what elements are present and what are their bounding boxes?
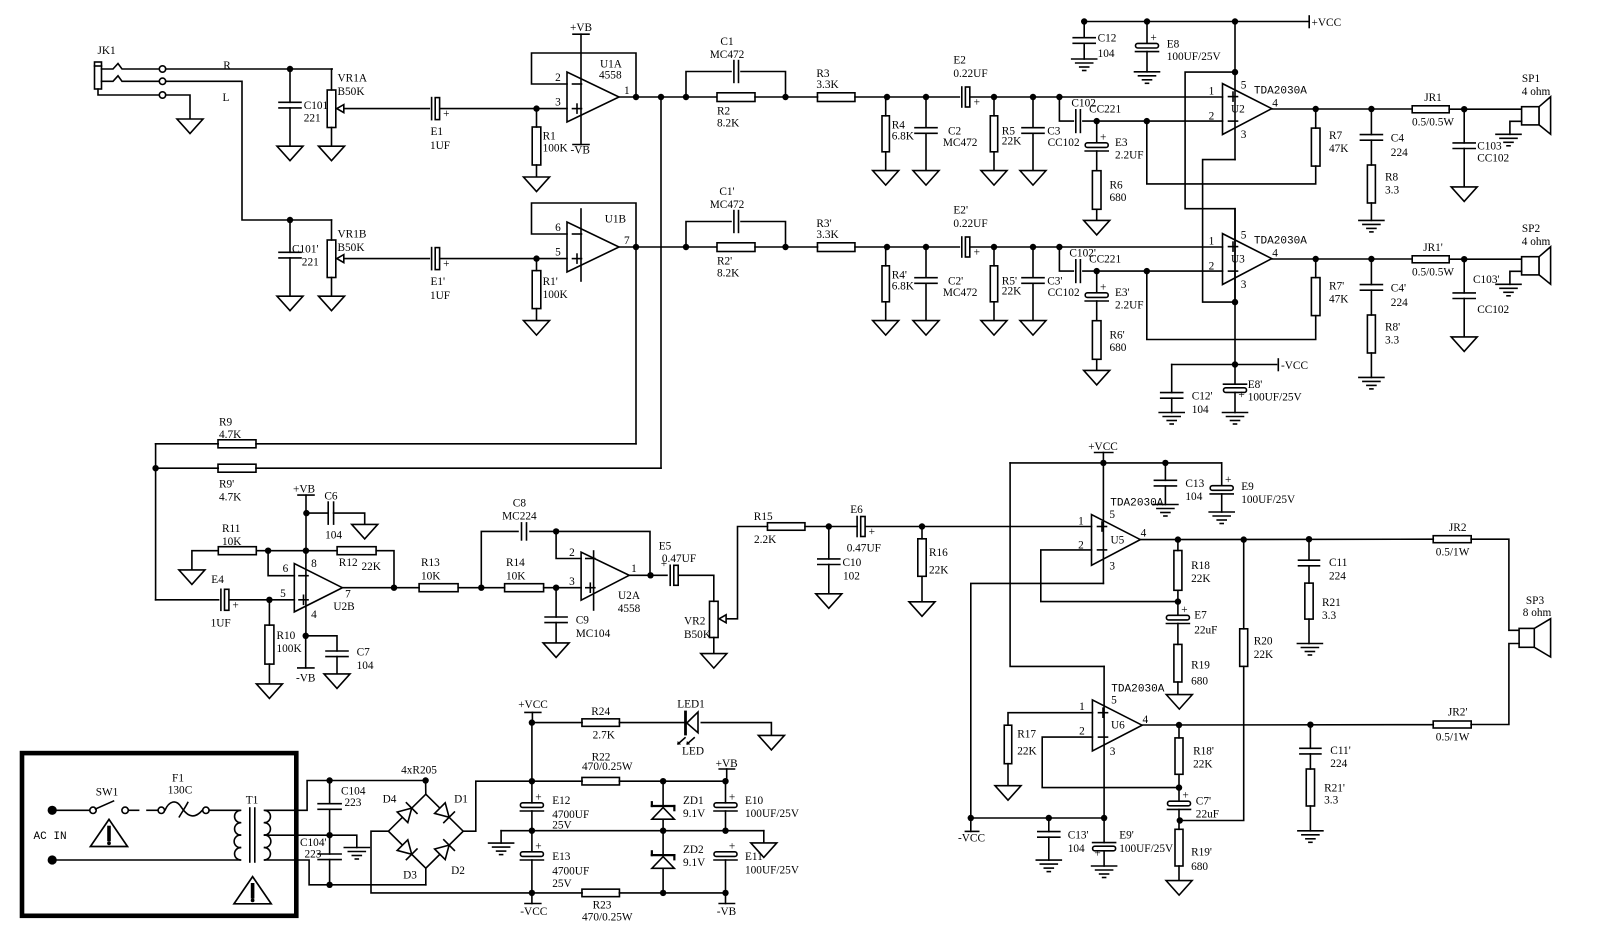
ground C12' [1159,413,1184,425]
pin 8 U2B [311,558,317,570]
wire E11 bottom lead [725,860,727,893]
svg-text:680: 680 [1110,342,1127,354]
capacitor C13' [1038,832,1060,838]
wire E10 bottom lead [725,811,727,831]
svg-text:+: + [1181,604,1187,616]
capacitor E8 [1136,32,1159,52]
svg-text:R14: R14 [506,557,525,569]
svg-text:1UF: 1UF [430,290,450,302]
ground SP1 [1496,134,1521,146]
svg-text:TDA2030A: TDA2030A [1254,86,1307,98]
svg-text:C12: C12 [1098,33,1117,45]
power-amp U3 triangle [1223,234,1272,285]
wire E8' top lead [1234,365,1236,385]
label R11 [222,523,242,548]
label C6 [324,491,342,542]
svg-text:R19': R19' [1191,847,1212,859]
wire U5 pin3 to -VCC [971,583,1104,818]
svg-text:VR1B: VR1B [338,229,367,241]
wire ZD2 bottom lead [662,870,664,893]
label U3 [1231,254,1245,266]
capacitor E4 [221,589,239,611]
label E9' [1119,829,1174,855]
svg-text:5: 5 [555,246,561,258]
wire E12 top lead [531,781,533,803]
svg-text:C7': C7' [1196,796,1211,808]
wire C103' top lead [1463,259,1465,293]
junction R1 top [533,105,539,111]
label C13 [1185,478,1204,503]
svg-text:100UF/25V: 100UF/25V [745,865,800,877]
wire R18 bottom lead [1177,590,1179,601]
svg-text:C6: C6 [324,491,338,503]
svg-text:E1': E1' [431,276,446,288]
junction C103' top [1461,256,1467,262]
svg-text:22uF: 22uF [1196,808,1219,820]
wire C8 pin2 drop [556,531,581,558]
label JR1' [1412,242,1454,279]
label SP1 [1522,73,1551,98]
label R5' [1002,276,1022,298]
power-amp U2 triangle [1223,84,1272,135]
resistor R21 [1305,583,1313,619]
wire C3 bottom lead [1032,133,1034,170]
svg-text:U2B: U2B [333,601,354,613]
wire C11' top lead [1309,725,1311,749]
junction R18' top [1176,722,1182,728]
ground R6 [1084,220,1110,235]
svg-text:100UF/25V: 100UF/25V [1241,494,1296,506]
pin 1 U3 [1209,235,1215,247]
wire E5 to VR2 [679,575,714,601]
capacitor C103' [1453,293,1475,299]
wire C103 bottom lead [1463,149,1465,187]
wire C3' bottom lead [1032,283,1034,320]
svg-text:F1: F1 [172,773,184,785]
wire bridge minus out [371,831,532,893]
resistor R24 [582,719,620,727]
wire E13 bottom lead [531,860,533,893]
fuse F1 right circle [203,807,209,813]
svg-text:+: + [729,840,735,852]
svg-text:R17: R17 [1017,728,1036,740]
svg-text:E6: E6 [850,504,863,516]
label C11 [1329,557,1347,582]
wire C11 top lead [1308,539,1310,560]
junction R5 top [991,94,997,100]
label C3' [1047,276,1080,299]
wire SP2 ground stub [1510,271,1522,284]
svg-text:2: 2 [1209,261,1215,273]
svg-text:6.8K: 6.8K [892,280,915,292]
svg-text:224: 224 [1329,570,1346,582]
junction -VCC left [968,815,974,821]
wire ZD1 bottom lead [662,821,664,831]
junction C8 left [478,585,484,591]
power flag +VB psu [719,768,734,770]
wire E12 bottom lead [531,811,533,852]
wire U1A feedback box [532,53,637,97]
ground 0V left [489,843,514,855]
power flag +VCC U5 [1095,452,1113,454]
capacitor C4 [1360,135,1382,141]
pin 5 U3 [1241,229,1247,241]
wire R23 to -VB [619,892,725,894]
label C4' [1391,283,1408,310]
svg-text:R11: R11 [222,523,240,535]
bridge rectifier diamond [388,794,463,868]
switch SW1 throw circle [122,807,128,813]
svg-text:3.3: 3.3 [1385,334,1399,346]
svg-text:R18': R18' [1193,746,1214,758]
svg-text:8.2K: 8.2K [717,268,740,280]
svg-text:221: 221 [302,256,319,268]
wire E9' top lead [1103,818,1105,843]
svg-text:1: 1 [1209,235,1215,247]
svg-text:C101: C101 [304,100,328,112]
svg-text:E8: E8 [1167,39,1180,51]
wire +VB stub [726,769,728,781]
resistor R21' [1306,769,1314,806]
label C103' [1473,274,1510,316]
wire C101 top [289,69,291,102]
ground SP2 [1496,284,1521,296]
svg-text:SP1: SP1 [1522,73,1540,85]
wire C1' box [686,222,731,248]
svg-text:-VB: -VB [571,145,590,157]
junction 0V ZD [660,828,666,834]
svg-text:4.7K: 4.7K [219,429,242,441]
svg-text:R18: R18 [1191,560,1210,572]
junction C103 top [1461,106,1467,112]
wire R24 line [532,722,582,724]
label R4' [892,270,915,293]
svg-text:22K: 22K [1191,573,1211,585]
svg-text:-VB: -VB [717,906,736,918]
ground C103 [1451,187,1477,202]
junction -VCC E13 [529,890,535,896]
svg-text:8: 8 [311,558,317,570]
wire R1' bottom lead [536,309,538,321]
jack ring spring [102,76,160,82]
junction R7' top node [1313,256,1319,262]
junction bridge AC top [422,777,428,783]
wire 0V ground stub [500,831,502,843]
label R20 [1254,636,1274,661]
label R2' [717,255,740,279]
svg-text:3.3K: 3.3K [816,79,839,91]
U2B plus symbol [299,595,308,604]
ground VR1B [319,296,345,311]
svg-text:+: + [535,840,541,852]
junction C104 bottom [326,832,332,838]
U2A minus symbol [586,558,595,560]
zener ZD2 [652,851,675,868]
wire R11 to R12 [256,550,337,552]
svg-text:3: 3 [555,96,561,108]
terminal AC neutral [48,855,57,864]
wire R16 top lead [921,527,923,539]
svg-text:CC102: CC102 [1477,153,1509,165]
wire U3 output [1272,258,1413,260]
capacitor E13 [520,840,543,860]
wire R22 line [532,780,582,782]
wire JR1' to SP2 [1449,258,1521,260]
svg-text:22K: 22K [1254,649,1274,661]
svg-text:JR2: JR2 [1449,522,1467,534]
svg-text:104: 104 [1098,48,1115,60]
wire U2A output [629,574,667,576]
label E7 [1194,610,1217,637]
svg-text:+VCC: +VCC [1312,17,1342,29]
label C101' [292,243,319,268]
svg-text:0.47UF: 0.47UF [847,543,881,555]
U2 plus symbol [1229,92,1238,101]
svg-text:25V: 25V [552,878,572,890]
svg-text:R10: R10 [277,630,296,642]
junction R4' top [884,244,890,250]
label R [223,60,231,72]
capacitor E7 [1166,604,1189,624]
label JK1 [98,45,116,57]
wire E9 bottom lead [1221,494,1223,512]
pin 1 U1A [624,85,630,97]
label R6 [1110,179,1127,204]
svg-text:4: 4 [1142,714,1148,726]
capacitor C7 [326,651,348,657]
ground center tap [344,848,369,860]
pin 3 U2 [1241,129,1247,141]
svg-text:E3: E3 [1115,137,1128,149]
label LED1 [677,699,705,711]
svg-text:4: 4 [311,609,317,621]
ground C13 [1153,505,1178,517]
svg-text:E13: E13 [552,851,571,863]
svg-text:10K: 10K [222,536,242,548]
svg-text:+: + [232,599,238,611]
wire R9 to U1B drop [256,443,636,445]
junction U3 pin3 node [1232,299,1238,305]
label R13 [421,557,441,583]
svg-text:100UF/25V: 100UF/25V [1119,843,1174,855]
op-amp U1B power line [580,209,582,281]
junction C2 top [923,94,929,100]
capacitor C6 [328,502,333,524]
wire -VB drop [305,636,307,668]
svg-text:R12: R12 [339,557,358,569]
svg-text:C9: C9 [576,615,590,627]
wire +VCC U5 stub [1102,453,1104,463]
wire R9 line [156,443,219,445]
junction E12 top [529,778,535,784]
resistor R6 [1092,171,1101,210]
junction U2B out [391,585,397,591]
junction R1' top [533,255,539,261]
capacitor C101 [279,102,301,108]
wire C12 bottom lead [1083,43,1085,59]
junction C1' right [782,244,788,250]
ground C101' [277,296,303,311]
wire R18' top lead [1178,725,1180,738]
ground C7 [324,674,350,689]
svg-text:22uF: 22uF [1194,625,1217,637]
jack sleeve lead [98,89,159,95]
resistor R19 [1174,644,1182,682]
junction C6 branch [303,510,309,516]
op-amp U2A power line [593,551,595,610]
wire U1B out down to R9 [635,247,637,444]
label U2B [333,601,354,613]
label E13 [552,851,589,890]
wire R4' top lead [886,247,887,266]
svg-text:LED1: LED1 [677,699,705,711]
wire SW1 to F1 [128,809,138,811]
junction E8 top [1144,18,1150,24]
power flag -VCC U6 [965,830,978,832]
junction E9' top [1101,815,1107,821]
wire +VCC psu stub [531,712,533,722]
svg-text:130C: 130C [168,784,192,796]
svg-text:C104': C104' [300,837,327,849]
label E12 [552,795,589,832]
capacitor E1' [432,248,450,271]
capacitor C1' [734,211,739,233]
label R8 [1385,172,1399,197]
svg-text:+: + [1182,790,1188,802]
svg-text:100K: 100K [543,143,569,155]
wire C102' branch [1059,247,1073,271]
label 4xR205 [401,765,437,777]
wire U5 pin2 feedback box [1041,550,1178,602]
label C101 [304,100,328,125]
svg-text:D4: D4 [383,794,397,806]
junction R at C101 [287,66,293,72]
capacitor C101' [279,252,301,258]
svg-text:5: 5 [1241,79,1247,91]
label R14 [506,557,526,583]
wire E8' bottom lead [1234,392,1236,412]
junction R11 right pin6 [265,548,271,554]
svg-text:0.5/0.5W: 0.5/0.5W [1412,267,1454,279]
ground C9 [543,643,569,658]
junction C1 right [782,94,788,100]
svg-text:R: R [223,60,231,72]
wire E2' to C102' junction [971,246,1223,248]
resistor R18 [1174,551,1182,591]
label -VCC U6 [958,832,985,844]
op-amp U1A power line +VB to -VB [580,34,582,144]
svg-text:C101': C101' [292,243,319,255]
svg-text:1UF: 1UF [430,140,450,152]
svg-text:47K: 47K [1329,143,1349,155]
svg-text:C13: C13 [1185,478,1204,490]
svg-text:+: + [729,791,735,803]
svg-text:4700UF: 4700UF [552,866,589,878]
resistor R17 [1004,725,1012,764]
label VR2 [684,616,712,642]
label ZD1 [683,795,706,820]
label E2 [953,54,987,80]
svg-text:5: 5 [1241,229,1247,241]
label C2 [943,126,978,149]
wire R9 left vertical [155,444,157,600]
wire C12 top lead [1083,22,1085,38]
svg-text:MC472: MC472 [710,49,745,61]
svg-text:VR2: VR2 [684,616,706,628]
svg-text:C11: C11 [1329,557,1347,569]
wire pin6 drop [268,551,294,576]
svg-text:+VB: +VB [716,758,738,770]
label C1' [710,186,745,211]
label C7 [357,647,374,673]
svg-text:E2': E2' [953,204,968,216]
wire C10 bottom lead [828,565,830,594]
wire JR2 to SP3 [1471,539,1519,630]
svg-text:1: 1 [624,85,630,97]
wire R9' line left [156,467,219,469]
power flag -VCC mid [1277,359,1279,371]
resistor R14 [505,584,544,592]
label -VCC psu [520,906,547,918]
svg-text:R9: R9 [219,417,233,429]
wire R6' bottom lead [1096,359,1098,370]
wire C13' bottom lead [1048,837,1050,860]
label E10 [745,795,800,820]
diode D4 [397,803,417,823]
svg-text:CC102: CC102 [1477,304,1509,316]
pin 3 U3 [1241,279,1247,291]
label R18' [1193,746,1214,771]
svg-text:3: 3 [1109,560,1115,572]
wire bridge plus out [463,781,532,831]
label E3' [1115,287,1144,312]
jumper resistor JR1 [1412,106,1449,113]
svg-text:MC104: MC104 [576,628,611,640]
wire VR1B bottom [331,278,333,297]
label R24 [591,706,615,741]
pin 2 U3 [1209,261,1215,273]
junction C13' top [1046,815,1052,821]
wire C2' bottom lead [925,283,927,320]
wire -VCC rail [1172,364,1277,366]
wire C3' top lead [1032,247,1034,278]
svg-text:5: 5 [1111,694,1117,706]
U6 plus symbol [1099,708,1108,717]
wire C8 box left [481,531,518,587]
svg-text:+: + [974,97,980,109]
label D3 [403,869,417,881]
label LED [682,745,704,757]
wire C4 top lead [1370,109,1372,135]
svg-text:U6: U6 [1111,720,1125,732]
wire R4 top lead [886,97,887,116]
wire C101 bottom [289,108,291,146]
ground R21 [1297,644,1322,656]
wire R12 to output [376,551,394,588]
wire E1' to U1B pin5 [440,258,567,260]
capacitor C104 [318,804,341,810]
wire C10 top lead [828,527,830,559]
svg-text:MC472: MC472 [710,199,745,211]
power flag +VCC top [1308,16,1310,28]
label C4 [1391,133,1408,160]
U2 minus symbol [1229,120,1238,122]
svg-text:+VCC: +VCC [518,699,548,711]
svg-text:T1: T1 [246,795,259,807]
wire C11 to R21 [1308,566,1310,583]
label C104 [341,786,366,810]
svg-text:2.2K: 2.2K [754,534,777,546]
